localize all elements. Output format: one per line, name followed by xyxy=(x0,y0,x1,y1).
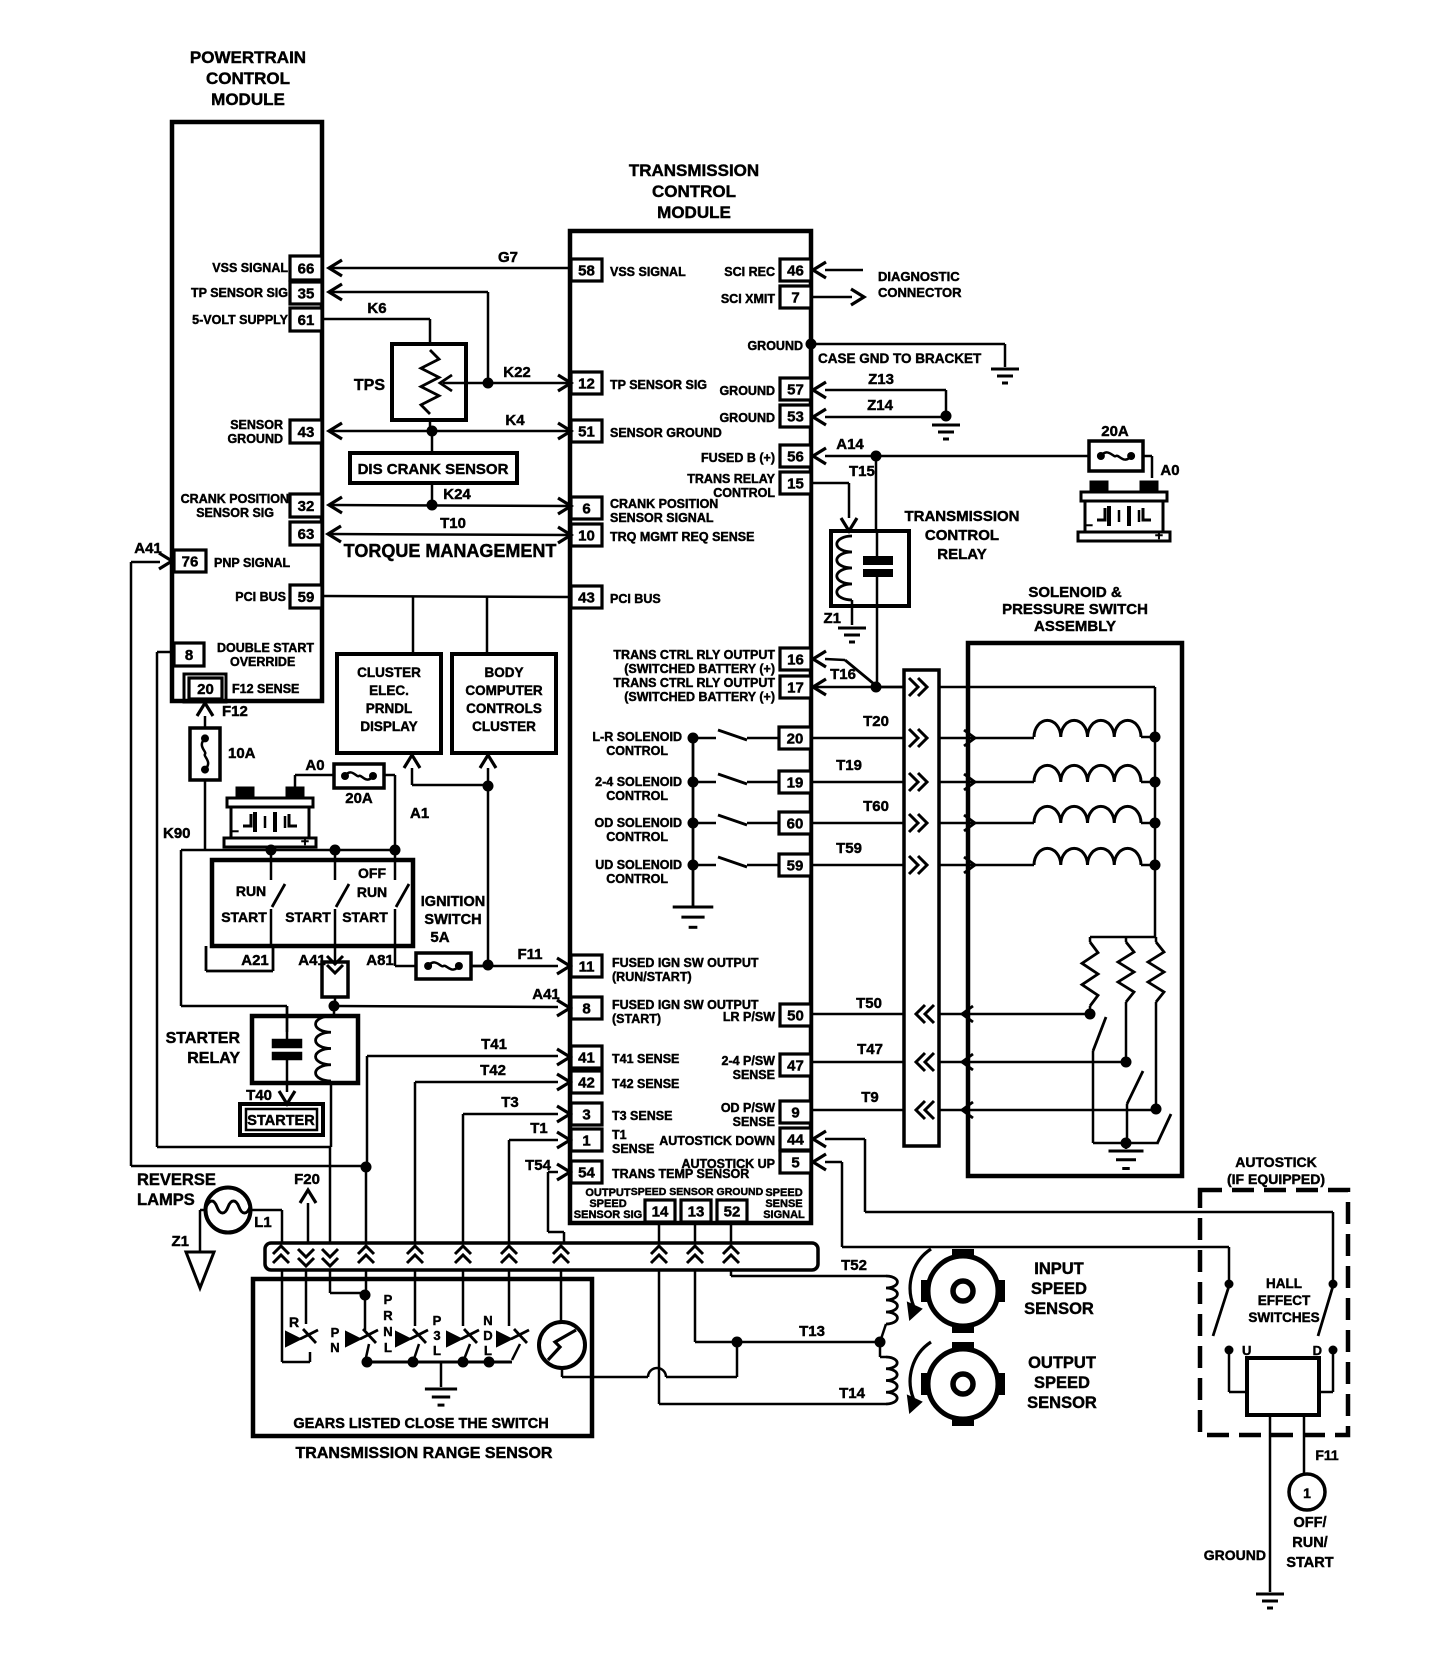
svg-text:GROUND: GROUND xyxy=(719,411,775,425)
wire pin 13 down xyxy=(694,1222,697,1243)
SOLENOID & PRESSURE SWITCH ASSEMBLY box xyxy=(968,643,1182,1176)
svg-text:RUN: RUN xyxy=(236,883,266,899)
svg-text:A81: A81 xyxy=(366,952,394,969)
svg-text:T9: T9 xyxy=(861,1089,879,1106)
starter relay coil xyxy=(316,1016,331,1081)
TCM pin 57 xyxy=(780,378,811,400)
svg-text:REVERSE: REVERSE xyxy=(137,1171,216,1189)
wire F11 from fuse xyxy=(471,965,488,968)
svg-text:−: − xyxy=(231,823,239,839)
svg-text:SENSOR SIG: SENSOR SIG xyxy=(196,506,274,520)
svg-text:T42: T42 xyxy=(480,1062,506,1079)
wire pin 5 autostick up xyxy=(813,1154,826,1170)
wire SCI XMIT to diagnostic connector xyxy=(811,296,852,299)
PCM pin 76 xyxy=(174,550,206,572)
svg-text:8: 8 xyxy=(185,647,193,664)
PCI bus branch to body computer xyxy=(486,596,489,654)
wire TRS feed down xyxy=(329,1147,332,1243)
OFF RUN START circle xyxy=(1289,1474,1325,1510)
svg-text:5: 5 xyxy=(791,1155,799,1172)
svg-text:OUTPUT: OUTPUT xyxy=(1028,1354,1096,1372)
svg-text:FUSED IGN SW OUTPUT: FUSED IGN SW OUTPUT xyxy=(612,956,759,970)
svg-text:PRESSURE SWITCH: PRESSURE SWITCH xyxy=(1002,601,1148,618)
svg-text:INPUT: INPUT xyxy=(1034,1260,1084,1278)
svg-text:STARTER: STARTER xyxy=(166,1030,241,1047)
TRANSMISSION CONTROL RELAY box xyxy=(831,531,909,606)
TRS ground bus xyxy=(364,1361,512,1364)
wire A41 PNP xyxy=(159,553,172,569)
wire pin8 double start override xyxy=(157,651,174,654)
ignition switch pole 2 xyxy=(334,850,337,880)
svg-text:(SWITCHED BATTERY (+): (SWITCHED BATTERY (+) xyxy=(624,690,775,704)
svg-text:R: R xyxy=(383,1308,393,1323)
svg-text:CONTROL: CONTROL xyxy=(606,789,668,803)
svg-text:L: L xyxy=(384,1340,392,1355)
svg-text:43: 43 xyxy=(298,424,315,441)
Z13/Z14 ground symbol xyxy=(932,424,960,427)
wire T41 xyxy=(367,1055,558,1058)
svg-text:T14: T14 xyxy=(839,1385,866,1402)
STARTER box xyxy=(240,1104,323,1135)
svg-text:TRANS RELAY: TRANS RELAY xyxy=(687,472,775,486)
TRS column R xyxy=(281,1270,284,1362)
svg-text:61: 61 xyxy=(298,312,315,329)
svg-text:GEARS LISTED CLOSE THE SWITCH: GEARS LISTED CLOSE THE SWITCH xyxy=(293,1416,548,1432)
TCM pin 15 xyxy=(780,472,811,494)
PCM pin 59 xyxy=(290,585,322,608)
svg-text:32: 32 xyxy=(298,498,315,515)
svg-text:A41: A41 xyxy=(134,540,162,557)
TPS bottom connection xyxy=(429,420,432,431)
strip chevron x463 xyxy=(455,1246,471,1254)
svg-text:20A: 20A xyxy=(345,790,373,807)
svg-text:A1: A1 xyxy=(410,805,429,822)
svg-text:CONTROL: CONTROL xyxy=(713,486,775,500)
svg-text:DISPLAY: DISPLAY xyxy=(360,719,417,734)
svg-text:59: 59 xyxy=(787,858,804,875)
svg-text:44: 44 xyxy=(787,1132,804,1149)
wire K22 xyxy=(480,382,571,385)
svg-text:TRQ MGMT REQ SENSE: TRQ MGMT REQ SENSE xyxy=(610,530,754,544)
svg-text:10: 10 xyxy=(578,528,595,545)
TPS wiper arrow xyxy=(443,382,466,385)
svg-text:10A: 10A xyxy=(228,745,256,762)
TCM pin 60 solenoid xyxy=(779,812,811,834)
PCM pin 32 xyxy=(290,494,322,517)
svg-text:START: START xyxy=(342,909,388,925)
TRS column PRNL feed xyxy=(329,1270,332,1293)
starter relay contact xyxy=(286,1006,289,1040)
TRS switch R xyxy=(286,1332,300,1346)
TCM pin 5 xyxy=(780,1151,811,1173)
svg-text:START: START xyxy=(285,909,331,925)
TRS switch 3 (PRNDL display) xyxy=(414,1270,417,1326)
svg-text:A21: A21 xyxy=(241,952,269,969)
svg-text:SENSOR SIGNAL: SENSOR SIGNAL xyxy=(610,511,714,525)
wire fuse to battery plus xyxy=(1143,455,1152,458)
svg-text:12: 12 xyxy=(578,376,595,393)
svg-text:T10: T10 xyxy=(440,515,466,532)
svg-text:F11: F11 xyxy=(1315,1447,1339,1463)
svg-text:PCI BUS: PCI BUS xyxy=(610,592,661,606)
svg-text:76: 76 xyxy=(182,554,199,571)
svg-text:3: 3 xyxy=(582,1107,590,1124)
svg-text:PRNDL: PRNDL xyxy=(366,701,413,716)
svg-text:58: 58 xyxy=(578,263,595,280)
PCM pin 20 xyxy=(184,674,226,702)
output speed sensor coil xyxy=(886,1357,897,1404)
TCM pin 58 xyxy=(571,259,602,281)
svg-text:OVERRIDE: OVERRIDE xyxy=(230,655,295,669)
A41 connector (ignition to starter) xyxy=(334,946,337,962)
horizontal connector strip xyxy=(265,1243,818,1270)
strip chevron x306 xyxy=(298,1258,314,1266)
svg-text:1: 1 xyxy=(1303,1485,1311,1501)
svg-text:A14: A14 xyxy=(836,436,864,453)
case ground symbol xyxy=(991,368,1019,371)
pressure switch resistor 3 xyxy=(1155,937,1158,942)
wire A14 down to relay xyxy=(875,456,878,531)
PCM pin 35 xyxy=(290,282,322,304)
strip chevron x659 xyxy=(651,1246,667,1254)
svg-text:13: 13 xyxy=(688,1204,705,1221)
TCM pin 10 xyxy=(571,524,602,546)
svg-text:N: N xyxy=(330,1340,339,1355)
svg-text:U: U xyxy=(1242,1343,1251,1358)
svg-text:T16: T16 xyxy=(830,666,856,683)
svg-text:CRANK POSITION: CRANK POSITION xyxy=(181,492,289,506)
TCM driver switch 59 xyxy=(693,864,716,867)
svg-text:16: 16 xyxy=(787,652,804,669)
svg-text:T52: T52 xyxy=(841,1257,867,1274)
TRS switch 5 xyxy=(508,1270,511,1326)
svg-text:N: N xyxy=(483,1313,492,1328)
svg-text:DIAGNOSTIC: DIAGNOSTIC xyxy=(878,269,960,284)
wire T42 xyxy=(415,1081,558,1084)
svg-text:CLUSTER: CLUSTER xyxy=(357,665,421,680)
svg-text:7: 7 xyxy=(791,290,799,307)
svg-text:TORQUE MANAGEMENT: TORQUE MANAGEMENT xyxy=(344,541,557,561)
svg-text:P: P xyxy=(384,1292,393,1307)
battery (left) xyxy=(237,788,253,798)
TCM pin 41 xyxy=(571,1046,602,1068)
svg-text:R: R xyxy=(289,1314,299,1330)
svg-text:SIGNAL: SIGNAL xyxy=(763,1209,805,1221)
svg-text:PCI BUS: PCI BUS xyxy=(235,590,286,604)
svg-text:TRANSMISSION: TRANSMISSION xyxy=(904,508,1019,525)
TCM pin 20 solenoid xyxy=(779,727,811,749)
svg-text:L-R SOLENOID: L-R SOLENOID xyxy=(592,730,682,744)
battery bus xyxy=(181,849,395,852)
svg-text:14: 14 xyxy=(652,1204,669,1221)
DIS CRANK SENSOR box xyxy=(350,453,517,483)
OD pressure switch xyxy=(968,1109,1156,1112)
strip chevron x281 xyxy=(273,1246,289,1254)
TCM driver switch 60 xyxy=(693,822,716,825)
wire G7 VSS xyxy=(329,267,571,270)
svg-text:SENSE: SENSE xyxy=(733,1115,775,1129)
svg-text:ASSEMBLY: ASSEMBLY xyxy=(1034,618,1116,635)
ground triangle Z1 xyxy=(186,1252,214,1288)
svg-text:L1: L1 xyxy=(254,1214,272,1231)
wire TP sensor sig pin35 xyxy=(329,291,488,294)
svg-text:T19: T19 xyxy=(836,757,862,774)
wire pin 52 down xyxy=(730,1222,733,1243)
TPS box xyxy=(392,344,466,420)
svg-text:T40: T40 xyxy=(246,1087,272,1104)
relay coil ground wire xyxy=(851,600,854,625)
svg-text:Z1: Z1 xyxy=(823,610,841,627)
wire A41 down to starter relay coil xyxy=(333,1006,336,1016)
svg-text:−: − xyxy=(1085,517,1093,533)
TCM internal ground bus xyxy=(692,738,695,907)
TCM pin 3 xyxy=(571,1103,602,1125)
svg-text:20: 20 xyxy=(787,731,804,748)
wire F11 autostick xyxy=(1303,1415,1306,1474)
svg-text:+: + xyxy=(1155,527,1163,543)
wire output coil top xyxy=(879,1342,882,1357)
svg-text:T60: T60 xyxy=(863,798,889,815)
wire temp sensor to T13 xyxy=(561,1368,564,1377)
svg-text:SENSOR GROUND: SENSOR GROUND xyxy=(610,426,722,440)
wire T54 xyxy=(557,1164,570,1180)
24 solenoid coil xyxy=(968,781,1034,784)
svg-text:K22: K22 xyxy=(503,364,531,381)
svg-text:(IF EQUIPPED): (IF EQUIPPED) xyxy=(1227,1171,1325,1187)
svg-text:(RUN/START): (RUN/START) xyxy=(612,970,692,984)
svg-text:T59: T59 xyxy=(836,840,862,857)
svg-text:CASE GND TO BRACKET: CASE GND TO BRACKET xyxy=(818,351,982,366)
assembly top wire to bus xyxy=(968,686,1155,689)
hall ground wire xyxy=(1269,1415,1272,1592)
TCM pin 17 xyxy=(780,676,811,698)
svg-text:56: 56 xyxy=(787,449,804,466)
svg-text:46: 46 xyxy=(787,263,804,280)
TRS temp sensor (circle) xyxy=(560,1270,563,1322)
svg-text:59: 59 xyxy=(298,589,315,606)
svg-text:6: 6 xyxy=(582,501,590,518)
svg-text:G7: G7 xyxy=(498,249,518,266)
svg-text:2-4 P/SW: 2-4 P/SW xyxy=(722,1054,776,1068)
svg-text:T3: T3 xyxy=(501,1094,519,1111)
TCM pin 53 xyxy=(780,405,811,427)
vertical connector strip (solenoid harness) xyxy=(904,670,939,1146)
svg-text:TRANS CTRL RLY OUTPUT: TRANS CTRL RLY OUTPUT xyxy=(613,676,775,690)
input speed sensor coil xyxy=(886,1276,897,1324)
svg-text:IGNITION: IGNITION xyxy=(421,894,485,910)
wire A1 xyxy=(384,774,395,777)
TCM pin 51 xyxy=(571,420,602,442)
svg-text:T13: T13 xyxy=(799,1323,825,1340)
svg-text:8: 8 xyxy=(582,1001,590,1018)
svg-text:P: P xyxy=(433,1313,442,1328)
ignition switch pole 1 xyxy=(270,850,273,880)
wire T14 xyxy=(658,1270,661,1404)
svg-text:TRANS CTRL RLY OUTPUT: TRANS CTRL RLY OUTPUT xyxy=(613,648,775,662)
svg-text:UD SOLENOID: UD SOLENOID xyxy=(595,858,682,872)
strip chevron x366 xyxy=(358,1246,374,1254)
svg-text:T3 SENSE: T3 SENSE xyxy=(612,1109,672,1123)
strip chevron x415 xyxy=(407,1246,423,1254)
svg-text:SPEED: SPEED xyxy=(1031,1280,1087,1298)
wire T47 xyxy=(811,1061,904,1064)
TCM pin 9 xyxy=(780,1101,811,1123)
svg-text:TP SENSOR SIG: TP SENSOR SIG xyxy=(610,378,707,392)
svg-text:VSS SIGNAL: VSS SIGNAL xyxy=(610,265,686,279)
svg-text:BODY: BODY xyxy=(484,665,523,680)
svg-text:CONTROL: CONTROL xyxy=(606,830,668,844)
svg-text:AUTOSTICK: AUTOSTICK xyxy=(1235,1154,1316,1170)
wire case ground xyxy=(811,343,1005,346)
fuse 10A xyxy=(190,728,220,780)
wire pin 16 with switch xyxy=(813,651,826,667)
TCM pin 12 xyxy=(571,372,602,394)
svg-text:42: 42 xyxy=(578,1075,595,1092)
svg-text:SENSE: SENSE xyxy=(612,1142,654,1156)
svg-text:T41: T41 xyxy=(481,1036,507,1053)
svg-text:SWITCH: SWITCH xyxy=(424,912,481,928)
fuse 20A (battery feed) xyxy=(1089,441,1143,471)
svg-text:(START): (START) xyxy=(612,1012,661,1026)
svg-text:11: 11 xyxy=(579,959,595,976)
svg-text:15: 15 xyxy=(787,476,804,493)
svg-text:TPS: TPS xyxy=(354,377,385,394)
TRS ground stub xyxy=(440,1362,443,1387)
svg-text:CONTROL: CONTROL xyxy=(606,744,668,758)
relay capacitor contact xyxy=(876,531,879,556)
svg-text:DIS CRANK SENSOR: DIS CRANK SENSOR xyxy=(358,461,509,478)
OD solenoid coil xyxy=(968,822,1034,825)
wire T15 trans relay control xyxy=(811,482,849,485)
svg-text:53: 53 xyxy=(787,409,804,426)
svg-text:(SWITCHED BATTERY (+): (SWITCHED BATTERY (+) xyxy=(624,662,775,676)
TCM pin 50 xyxy=(780,1004,811,1026)
svg-text:RELAY: RELAY xyxy=(187,1050,240,1067)
STARTER RELAY box xyxy=(252,1016,358,1083)
svg-text:A0: A0 xyxy=(1160,462,1179,479)
svg-text:A0: A0 xyxy=(305,757,324,774)
wire A41 to pin 8 xyxy=(334,1006,558,1007)
TCM pin 8 xyxy=(571,997,602,1019)
reverse lamp xyxy=(206,1188,251,1233)
TCM pin 54 xyxy=(571,1161,602,1183)
svg-text:SENSOR: SENSOR xyxy=(1027,1394,1097,1412)
svg-text:SENSE: SENSE xyxy=(733,1068,775,1082)
svg-text:L: L xyxy=(484,1343,492,1358)
svg-text:STARTER: STARTER xyxy=(247,1113,315,1129)
svg-text:SENSOR SIG: SENSOR SIG xyxy=(574,1209,642,1221)
svg-text:AUTOSTICK DOWN: AUTOSTICK DOWN xyxy=(659,1134,775,1148)
PCM pin 8 xyxy=(174,643,204,666)
pressure switch resistor 2 xyxy=(1125,937,1128,942)
strip chevron x561 xyxy=(553,1246,569,1254)
svg-text:VSS SIGNAL: VSS SIGNAL xyxy=(212,261,288,275)
wire lamp to ground xyxy=(200,1209,206,1212)
svg-text:MODULE: MODULE xyxy=(657,203,731,222)
svg-text:T1: T1 xyxy=(530,1120,548,1137)
svg-text:47: 47 xyxy=(787,1058,804,1075)
svg-text:GROUND: GROUND xyxy=(719,384,775,398)
wire K24 xyxy=(431,483,434,505)
hall IC box xyxy=(1247,1358,1319,1415)
svg-text:57: 57 xyxy=(787,382,804,399)
wire A81 to 5A fuse xyxy=(394,946,397,966)
TRANSMISSION RANGE SENSOR box xyxy=(253,1279,592,1436)
svg-text:T20: T20 xyxy=(863,713,889,730)
TCM pin 46 SCI REC xyxy=(780,259,811,281)
svg-text:TRANSMISSION: TRANSMISSION xyxy=(629,161,759,180)
svg-text:A41: A41 xyxy=(532,986,560,1003)
wire T1 xyxy=(509,1139,558,1142)
strip chevron x695 xyxy=(687,1246,703,1254)
svg-text:EFFECT: EFFECT xyxy=(1258,1293,1311,1308)
svg-text:5-VOLT SUPPLY: 5-VOLT SUPPLY xyxy=(192,313,289,327)
TCM pin 52 xyxy=(717,1200,747,1222)
svg-text:LR P/SW: LR P/SW xyxy=(723,1010,775,1024)
ignition switch pole 3 xyxy=(394,850,397,880)
wire A41 junction to TRS xyxy=(361,1162,372,1173)
UD solenoid coil xyxy=(968,864,1034,867)
wire F12 to pin 20 xyxy=(197,703,213,716)
svg-text:OD P/SW: OD P/SW xyxy=(721,1101,775,1115)
svg-text:CLUSTER: CLUSTER xyxy=(472,719,536,734)
svg-text:41: 41 xyxy=(578,1050,595,1067)
svg-text:SENSOR: SENSOR xyxy=(230,418,283,432)
svg-text:ELEC.: ELEC. xyxy=(369,683,409,698)
svg-text:T50: T50 xyxy=(856,995,882,1012)
svg-text:CONTROL: CONTROL xyxy=(206,69,290,88)
TCM pin 59 solenoid xyxy=(779,854,811,876)
pressure switch resistor 1 xyxy=(1089,937,1092,942)
wire T19 xyxy=(811,781,904,784)
svg-text:SOLENOID &: SOLENOID & xyxy=(1028,584,1122,601)
TCM pin 14 xyxy=(645,1200,675,1222)
svg-text:F12: F12 xyxy=(222,703,248,720)
BODY COMPUTER CONTROLS CLUSTER box xyxy=(452,654,556,753)
svg-text:POWERTRAIN: POWERTRAIN xyxy=(190,48,306,67)
svg-text:GROUND: GROUND xyxy=(227,432,283,446)
TCM pin 47 xyxy=(780,1054,811,1076)
body feed arrow xyxy=(480,755,496,768)
TCM pin 42 xyxy=(571,1071,602,1093)
wire T52 xyxy=(730,1270,733,1276)
TCM pin 6 xyxy=(571,497,602,519)
wire T9 xyxy=(811,1109,904,1112)
wire T59 xyxy=(811,864,904,867)
wire K90 run xyxy=(180,850,183,1006)
svg-text:K4: K4 xyxy=(505,412,525,429)
wire relay output to pin 16/17 xyxy=(876,606,879,687)
svg-text:9: 9 xyxy=(791,1105,799,1122)
wire pin 17 T16 xyxy=(811,686,904,689)
relay coil xyxy=(837,536,852,600)
svg-text:52: 52 xyxy=(724,1204,741,1221)
svg-text:60: 60 xyxy=(787,816,804,833)
svg-text:K6: K6 xyxy=(367,300,386,317)
wire T40 to starter xyxy=(279,1091,295,1104)
PCM pin 43 xyxy=(290,420,322,443)
svg-text:RUN/: RUN/ xyxy=(1292,1535,1327,1551)
svg-text:AUTOSTICK UP: AUTOSTICK UP xyxy=(681,1157,775,1171)
svg-text:T42 SENSE: T42 SENSE xyxy=(612,1077,679,1091)
svg-text:K90: K90 xyxy=(163,825,191,842)
TRS switch PN xyxy=(346,1332,360,1346)
svg-text:+: + xyxy=(301,833,309,849)
wire K6 xyxy=(322,318,430,321)
svg-text:P: P xyxy=(331,1325,340,1340)
svg-text:CRANK POSITION: CRANK POSITION xyxy=(610,497,718,511)
A21 stub xyxy=(205,946,208,971)
